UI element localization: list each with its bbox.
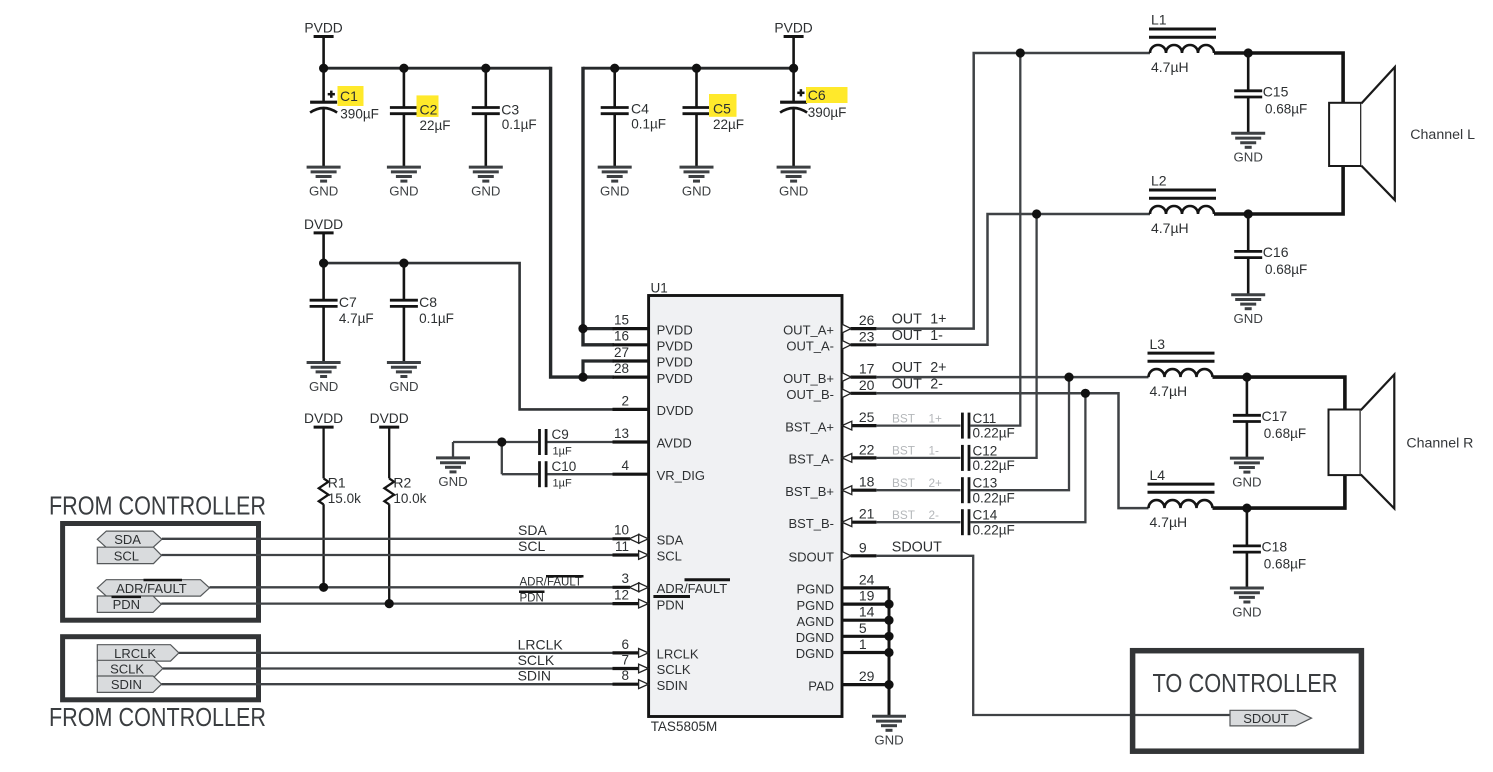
svg-text:1+: 1+ bbox=[930, 312, 946, 328]
svg-text:SDIN: SDIN bbox=[518, 668, 551, 684]
junction C16 tap bbox=[1244, 209, 1253, 218]
capacitor C7 4.7uF bbox=[310, 263, 374, 362]
svg-text:16: 16 bbox=[614, 329, 629, 344]
svg-text:BST: BST bbox=[892, 476, 915, 490]
wire L3 out to speaker R top bbox=[1213, 377, 1345, 410]
pin 29 PAD (right) bbox=[808, 668, 889, 693]
pin 17 OUT_B+ (right) bbox=[783, 361, 876, 386]
signal flag SCLK bbox=[97, 660, 163, 676]
svg-text:C10: C10 bbox=[552, 459, 577, 474]
svg-text:10: 10 bbox=[614, 523, 629, 538]
power flag DVDD (main) bbox=[304, 217, 343, 263]
svg-text:BST: BST bbox=[892, 508, 915, 522]
svg-text:GND: GND bbox=[600, 183, 629, 198]
svg-text:OUT: OUT bbox=[892, 328, 922, 344]
capacitor C14 0.22uF bbox=[962, 393, 1085, 537]
svg-text:PAD: PAD bbox=[808, 678, 834, 693]
svg-text:C13: C13 bbox=[973, 476, 998, 491]
pin 3 ADR/FAULT (left) bbox=[613, 571, 731, 596]
controller box TO CONTROLLER bbox=[1133, 651, 1362, 752]
svg-text:U1: U1 bbox=[651, 281, 668, 296]
wire BST 1+ net bbox=[876, 411, 961, 425]
svg-text:12: 12 bbox=[614, 588, 629, 603]
wire DVDD rail to pin 2 bbox=[324, 263, 614, 409]
svg-text:ADR/FAULT: ADR/FAULT bbox=[116, 581, 187, 596]
wire BST 2+ net bbox=[876, 476, 961, 490]
svg-text:2+: 2+ bbox=[930, 360, 946, 376]
wire ground bus (PGND/AGND/DGND/PAD) bbox=[888, 588, 891, 716]
svg-text:BST_B-: BST_B- bbox=[788, 516, 834, 531]
svg-text:0.68µF: 0.68µF bbox=[1264, 557, 1306, 572]
svg-text:0.1µF: 0.1µF bbox=[631, 116, 666, 131]
svg-text:0.68µF: 0.68µF bbox=[1265, 102, 1307, 117]
pin 27 PVDD (left) bbox=[613, 345, 693, 370]
pin 13 AVDD (left) bbox=[613, 426, 692, 451]
svg-text:TO CONTROLLER: TO CONTROLLER bbox=[1153, 670, 1338, 698]
svg-text:SCL: SCL bbox=[657, 549, 682, 564]
ground IC pad bbox=[872, 716, 906, 747]
wire SCL bbox=[162, 538, 614, 555]
wire L4 out to speaker R bottom bbox=[1213, 475, 1345, 509]
pin 18 BST_B+ (right) bbox=[785, 474, 876, 499]
svg-text:GND: GND bbox=[1234, 150, 1263, 165]
svg-text:OUT_B-: OUT_B- bbox=[786, 387, 834, 402]
ground C1 bbox=[307, 167, 341, 198]
signal flag SDOUT bbox=[1230, 710, 1312, 726]
svg-text:PDN: PDN bbox=[657, 597, 684, 612]
node AVDD/VR_DIG decoupling bbox=[453, 442, 538, 474]
svg-text:BST_A-: BST_A- bbox=[788, 452, 834, 467]
pin 21 BST_B- (right) bbox=[788, 506, 876, 531]
svg-text:GND: GND bbox=[682, 183, 711, 198]
pin 19 PGND (right) bbox=[796, 588, 889, 613]
svg-text:PVDD: PVDD bbox=[657, 371, 693, 386]
svg-text:4.7µH: 4.7µH bbox=[1150, 383, 1188, 399]
svg-text:15: 15 bbox=[614, 313, 629, 328]
op-amp U1 TAS5805M body bbox=[649, 281, 842, 734]
junction C18 tap bbox=[1242, 504, 1251, 513]
svg-text:GND: GND bbox=[874, 733, 903, 748]
svg-text:GND: GND bbox=[438, 474, 467, 489]
svg-text:OUT_B+: OUT_B+ bbox=[783, 371, 834, 386]
svg-text:10.0k: 10.0k bbox=[393, 491, 426, 506]
svg-text:GND: GND bbox=[471, 183, 500, 198]
wire PVDD left rail drop to pin 28 bbox=[551, 67, 614, 377]
inductor L2 bbox=[1149, 173, 1216, 236]
svg-text:SCL: SCL bbox=[518, 538, 545, 554]
svg-text:20: 20 bbox=[859, 377, 875, 393]
controller box 2 bbox=[63, 637, 259, 700]
svg-text:OUT_A-: OUT_A- bbox=[786, 339, 834, 354]
svg-text:C3: C3 bbox=[501, 101, 519, 117]
wire LRCLK bbox=[179, 637, 614, 653]
svg-text:LRCLK: LRCLK bbox=[518, 637, 564, 653]
svg-text:C1: C1 bbox=[340, 88, 358, 104]
svg-text:SDOUT: SDOUT bbox=[892, 539, 942, 555]
svg-text:SDA: SDA bbox=[657, 533, 684, 548]
svg-text:4.7µF: 4.7µF bbox=[339, 311, 374, 326]
junction dots R1/R2 bbox=[319, 583, 328, 592]
signal flag SDA bbox=[97, 531, 162, 547]
signal flag SDIN bbox=[97, 676, 161, 692]
svg-text:Channel L: Channel L bbox=[1410, 127, 1475, 143]
capacitor C18 0.68uF bbox=[1233, 508, 1306, 588]
svg-text:GND: GND bbox=[309, 379, 338, 394]
pin 26 OUT_A+ (right) bbox=[783, 312, 876, 337]
svg-text:0.68µF: 0.68µF bbox=[1264, 426, 1306, 441]
svg-text:22: 22 bbox=[859, 441, 875, 457]
capacitor C16 0.68uF bbox=[1234, 214, 1307, 295]
svg-text:SCLK: SCLK bbox=[657, 662, 691, 677]
svg-text:SDA: SDA bbox=[114, 532, 141, 547]
svg-text:4.7µH: 4.7µH bbox=[1151, 220, 1189, 236]
wire PVDD rail left bbox=[324, 67, 551, 70]
svg-text:0.1µF: 0.1µF bbox=[419, 311, 454, 326]
wire ADR/FAULT bbox=[210, 576, 614, 588]
ground C9/C10 bbox=[436, 458, 470, 489]
pin 2 DVDD (left) bbox=[613, 393, 694, 418]
svg-text:OUT: OUT bbox=[892, 360, 922, 376]
junction node C9/C10 bbox=[497, 437, 506, 446]
capacitor C8 0.1uF bbox=[390, 263, 454, 362]
svg-text:PGND: PGND bbox=[796, 598, 834, 613]
svg-text:PDN: PDN bbox=[520, 593, 544, 605]
svg-text:L3: L3 bbox=[1150, 336, 1166, 352]
svg-text:C12: C12 bbox=[973, 443, 998, 458]
junction dots rail left bbox=[319, 64, 328, 73]
wire L2 out to speaker L bottom bbox=[1214, 166, 1343, 214]
svg-text:SCLK: SCLK bbox=[110, 661, 144, 676]
svg-text:L2: L2 bbox=[1151, 173, 1167, 189]
svg-text:0.22µF: 0.22µF bbox=[973, 490, 1015, 505]
pin 16 PVDD (left) bbox=[613, 329, 693, 354]
svg-text:24: 24 bbox=[859, 571, 875, 587]
svg-text:BST_B+: BST_B+ bbox=[785, 484, 834, 499]
wire SDOUT to controller bbox=[876, 539, 1231, 715]
speaker Channel R bbox=[1329, 375, 1474, 509]
capacitor C2 22uF bbox=[390, 68, 451, 167]
inductor L1 bbox=[1149, 12, 1216, 75]
svg-text:9: 9 bbox=[859, 539, 867, 555]
ground C6 bbox=[777, 167, 811, 198]
svg-text:DVDD: DVDD bbox=[304, 411, 343, 426]
junction dots BST taps bbox=[1016, 48, 1025, 57]
capacitor C13 0.22uF bbox=[962, 377, 1069, 505]
pin 14 AGND (right) bbox=[796, 604, 889, 629]
pin 6 LRCLK (left) bbox=[613, 637, 699, 662]
svg-text:DGND: DGND bbox=[796, 646, 834, 661]
svg-text:LRCLK: LRCLK bbox=[114, 646, 156, 661]
svg-text:C2: C2 bbox=[420, 102, 438, 118]
svg-text:1: 1 bbox=[859, 636, 867, 652]
svg-text:29: 29 bbox=[859, 668, 875, 684]
svg-text:ADR/FAULT: ADR/FAULT bbox=[657, 581, 728, 596]
wire OUT_B- to L4 bbox=[876, 376, 1149, 508]
wire BST 1- net bbox=[876, 444, 961, 458]
svg-text:GND: GND bbox=[779, 183, 808, 198]
svg-text:23: 23 bbox=[859, 328, 875, 344]
svg-text:OUT: OUT bbox=[892, 312, 922, 328]
svg-text:C15: C15 bbox=[1263, 84, 1289, 100]
svg-text:C4: C4 bbox=[631, 100, 649, 116]
svg-text:17: 17 bbox=[859, 361, 875, 377]
wire PVDD rail mid bbox=[583, 67, 794, 70]
svg-text:GND: GND bbox=[389, 379, 418, 394]
svg-text:C17: C17 bbox=[1262, 408, 1288, 424]
svg-text:1µF: 1µF bbox=[553, 446, 572, 458]
resistor R2 10.0k bbox=[384, 475, 426, 604]
svg-text:8: 8 bbox=[621, 668, 629, 683]
power flag DVDD (R1) bbox=[304, 411, 343, 478]
power flag PVDD (mid) bbox=[774, 21, 812, 69]
svg-text:PVDD: PVDD bbox=[657, 355, 693, 370]
junction C17 tap bbox=[1242, 373, 1251, 382]
svg-text:0.22µF: 0.22µF bbox=[973, 522, 1015, 537]
svg-text:SDA: SDA bbox=[518, 522, 547, 538]
capacitor C1 390uF electrolytic bbox=[310, 68, 379, 167]
pin 1 DGND (right) bbox=[796, 636, 889, 661]
pin 28 PVDD (left) bbox=[613, 361, 693, 386]
svg-text:Channel R: Channel R bbox=[1406, 435, 1473, 451]
svg-text:PVDD: PVDD bbox=[657, 322, 693, 337]
svg-text:BST_A+: BST_A+ bbox=[785, 419, 834, 434]
svg-text:0.22µF: 0.22µF bbox=[973, 426, 1015, 441]
svg-text:OUT: OUT bbox=[892, 376, 922, 392]
wire OUT_A- to L2 bbox=[876, 214, 1150, 345]
wire SDIN bbox=[162, 668, 614, 685]
svg-text:C14: C14 bbox=[973, 508, 998, 523]
ground C15 bbox=[1231, 133, 1265, 164]
svg-text:0.1µF: 0.1µF bbox=[502, 117, 537, 132]
svg-text:BST: BST bbox=[892, 444, 915, 458]
capacitor C3 0.1uF bbox=[472, 68, 537, 167]
ground C18 bbox=[1230, 588, 1264, 619]
inductor L4 bbox=[1148, 467, 1215, 530]
svg-text:R1: R1 bbox=[328, 475, 346, 491]
svg-text:DVDD: DVDD bbox=[657, 403, 694, 418]
svg-text:FROM CONTROLLER: FROM CONTROLLER bbox=[49, 704, 266, 732]
ground C5 bbox=[680, 167, 714, 198]
svg-text:FROM CONTROLLER: FROM CONTROLLER bbox=[49, 492, 266, 520]
svg-text:SDOUT: SDOUT bbox=[789, 550, 835, 565]
svg-text:390µF: 390µF bbox=[340, 106, 379, 121]
capacitor C9 1uF bbox=[540, 427, 615, 458]
svg-text:1-: 1- bbox=[930, 328, 943, 344]
wire L1 out to speaker L top bbox=[1214, 53, 1343, 104]
svg-text:1-: 1- bbox=[929, 444, 940, 458]
wire BST 2- net bbox=[876, 508, 961, 522]
svg-text:5: 5 bbox=[859, 620, 867, 636]
svg-text:SDOUT: SDOUT bbox=[1243, 711, 1289, 726]
svg-text:27: 27 bbox=[614, 345, 629, 360]
junction dots DVDD rail bbox=[319, 259, 328, 268]
wire pin27 link bbox=[583, 361, 614, 377]
pin 24 PGND (right) bbox=[796, 571, 889, 596]
svg-text:LRCLK: LRCLK bbox=[657, 647, 699, 662]
ground C8 bbox=[387, 363, 421, 394]
svg-text:DVDD: DVDD bbox=[304, 217, 343, 232]
svg-text:TAS5805M: TAS5805M bbox=[651, 719, 718, 734]
svg-text:SCL: SCL bbox=[114, 548, 139, 563]
inductor L3 bbox=[1148, 336, 1215, 399]
svg-text:C11: C11 bbox=[973, 411, 997, 426]
pin 8 SDIN (left) bbox=[613, 668, 688, 693]
pin 15 PVDD (left) bbox=[613, 313, 693, 338]
wire PDN bbox=[161, 592, 613, 605]
svg-text:SCLK: SCLK bbox=[518, 652, 555, 668]
ground C3 bbox=[469, 167, 503, 198]
svg-text:C8: C8 bbox=[419, 294, 437, 310]
wire PVDD mid rail drop to pins 15/16 bbox=[583, 67, 614, 345]
ground C4 bbox=[598, 167, 632, 198]
signal flag PDN bbox=[97, 596, 161, 612]
svg-text:22µF: 22µF bbox=[713, 117, 744, 132]
svg-text:PGND: PGND bbox=[796, 582, 834, 597]
pin 20 OUT_B- (right) bbox=[786, 377, 876, 402]
svg-text:BST: BST bbox=[892, 411, 915, 425]
svg-text:GND: GND bbox=[309, 183, 338, 198]
svg-text:2-: 2- bbox=[930, 376, 943, 392]
svg-text:2+: 2+ bbox=[929, 476, 943, 490]
junction dots rail mid bbox=[610, 64, 619, 73]
svg-text:VR_DIG: VR_DIG bbox=[657, 468, 705, 483]
power flag PVDD (left) bbox=[304, 21, 342, 69]
svg-text:7: 7 bbox=[621, 652, 629, 667]
controller box 1 bbox=[63, 524, 259, 621]
svg-text:390µF: 390µF bbox=[808, 105, 847, 120]
signal flag SCL bbox=[97, 547, 161, 563]
svg-text:L4: L4 bbox=[1150, 467, 1166, 483]
capacitor C15 0.68uF bbox=[1234, 53, 1307, 133]
svg-text:OUT_A+: OUT_A+ bbox=[783, 322, 834, 337]
power flag DVDD (R2) bbox=[370, 411, 409, 478]
junction dots ground bus bbox=[884, 600, 893, 609]
svg-text:2-: 2- bbox=[929, 508, 940, 522]
resistor R1 15.0k bbox=[319, 475, 361, 588]
svg-text:C16: C16 bbox=[1263, 244, 1289, 260]
svg-text:26: 26 bbox=[859, 312, 875, 328]
svg-text:19: 19 bbox=[859, 588, 875, 604]
capacitor C17 0.68uF bbox=[1233, 377, 1306, 458]
pin 23 OUT_A- (right) bbox=[786, 328, 876, 353]
svg-text:PVDD: PVDD bbox=[304, 21, 342, 36]
ground C17 bbox=[1230, 458, 1264, 489]
svg-text:0.68µF: 0.68µF bbox=[1265, 262, 1307, 277]
svg-text:AGND: AGND bbox=[796, 614, 834, 629]
svg-text:GND: GND bbox=[1234, 311, 1263, 326]
capacitor C10 1uF bbox=[540, 459, 615, 490]
svg-text:C18: C18 bbox=[1262, 539, 1288, 555]
pin 12 PDN (left) bbox=[613, 588, 691, 613]
svg-text:C5: C5 bbox=[713, 100, 731, 116]
svg-text:C9: C9 bbox=[552, 427, 569, 442]
capacitor C4 0.1uF bbox=[601, 68, 666, 167]
pin 7 SCLK (left) bbox=[613, 652, 691, 677]
svg-text:4: 4 bbox=[621, 458, 629, 473]
svg-text:22µF: 22µF bbox=[420, 118, 451, 133]
svg-text:18: 18 bbox=[859, 474, 875, 490]
signal flag LRCLK bbox=[97, 645, 179, 661]
speaker Channel L bbox=[1329, 67, 1475, 200]
svg-text:R2: R2 bbox=[393, 475, 411, 491]
pin 4 VR_DIG (left) bbox=[613, 458, 706, 483]
svg-text:ADR/FAULT: ADR/FAULT bbox=[520, 576, 582, 588]
wire SDA bbox=[162, 522, 614, 539]
capacitor C12 0.22uF bbox=[962, 214, 1036, 473]
pin 11 SCL (left) bbox=[613, 539, 682, 564]
svg-text:1µF: 1µF bbox=[553, 478, 572, 490]
pin 5 DGND (right) bbox=[796, 620, 889, 645]
svg-text:SDIN: SDIN bbox=[657, 678, 688, 693]
svg-text:GND: GND bbox=[1232, 604, 1261, 619]
svg-text:6: 6 bbox=[621, 637, 629, 652]
pin 10 SDA (left) bbox=[613, 523, 684, 548]
svg-text:0.22µF: 0.22µF bbox=[973, 458, 1015, 473]
pin 22 BST_A- (right) bbox=[788, 441, 876, 466]
svg-text:PVDD: PVDD bbox=[657, 339, 693, 354]
svg-text:GND: GND bbox=[1232, 474, 1261, 489]
svg-text:AVDD: AVDD bbox=[657, 436, 692, 451]
svg-text:L1: L1 bbox=[1151, 12, 1167, 28]
svg-text:C6: C6 bbox=[808, 87, 826, 103]
svg-text:DGND: DGND bbox=[796, 630, 834, 645]
wire SCLK bbox=[163, 652, 614, 668]
svg-text:SDIN: SDIN bbox=[111, 677, 142, 692]
ground C16 bbox=[1231, 295, 1265, 326]
pin 25 BST_A+ (right) bbox=[785, 409, 876, 434]
capacitor C5 22uF bbox=[683, 68, 745, 167]
svg-text:3: 3 bbox=[621, 571, 629, 586]
svg-text:11: 11 bbox=[615, 539, 629, 554]
wire OUT_B+ to L3 bbox=[876, 360, 1149, 377]
svg-text:14: 14 bbox=[859, 604, 875, 620]
svg-text:DVDD: DVDD bbox=[370, 411, 409, 426]
svg-text:4.7µH: 4.7µH bbox=[1151, 59, 1189, 75]
svg-text:C7: C7 bbox=[339, 294, 357, 310]
junction C15 tap bbox=[1244, 48, 1253, 57]
svg-text:28: 28 bbox=[614, 361, 629, 376]
wire OUT_A+ to L1 bbox=[876, 53, 1150, 329]
svg-text:21: 21 bbox=[859, 506, 875, 522]
svg-text:PDN: PDN bbox=[113, 597, 140, 612]
ground C7 bbox=[307, 363, 341, 394]
svg-text:25: 25 bbox=[859, 409, 875, 425]
svg-text:2: 2 bbox=[621, 393, 629, 408]
capacitor C6 390uF electrolytic bbox=[780, 68, 847, 167]
pin 9 SDOUT (right) bbox=[789, 539, 877, 564]
svg-text:13: 13 bbox=[614, 426, 629, 441]
ground C2 bbox=[387, 167, 421, 198]
signal flag ADR/FAULT bbox=[97, 580, 209, 596]
svg-text:15.0k: 15.0k bbox=[328, 491, 361, 506]
svg-text:GND: GND bbox=[389, 183, 418, 198]
svg-text:1+: 1+ bbox=[929, 411, 943, 425]
svg-text:4.7µH: 4.7µH bbox=[1150, 514, 1188, 530]
capacitor C11 0.22uF bbox=[962, 53, 1020, 441]
svg-text:PVDD: PVDD bbox=[774, 21, 812, 36]
